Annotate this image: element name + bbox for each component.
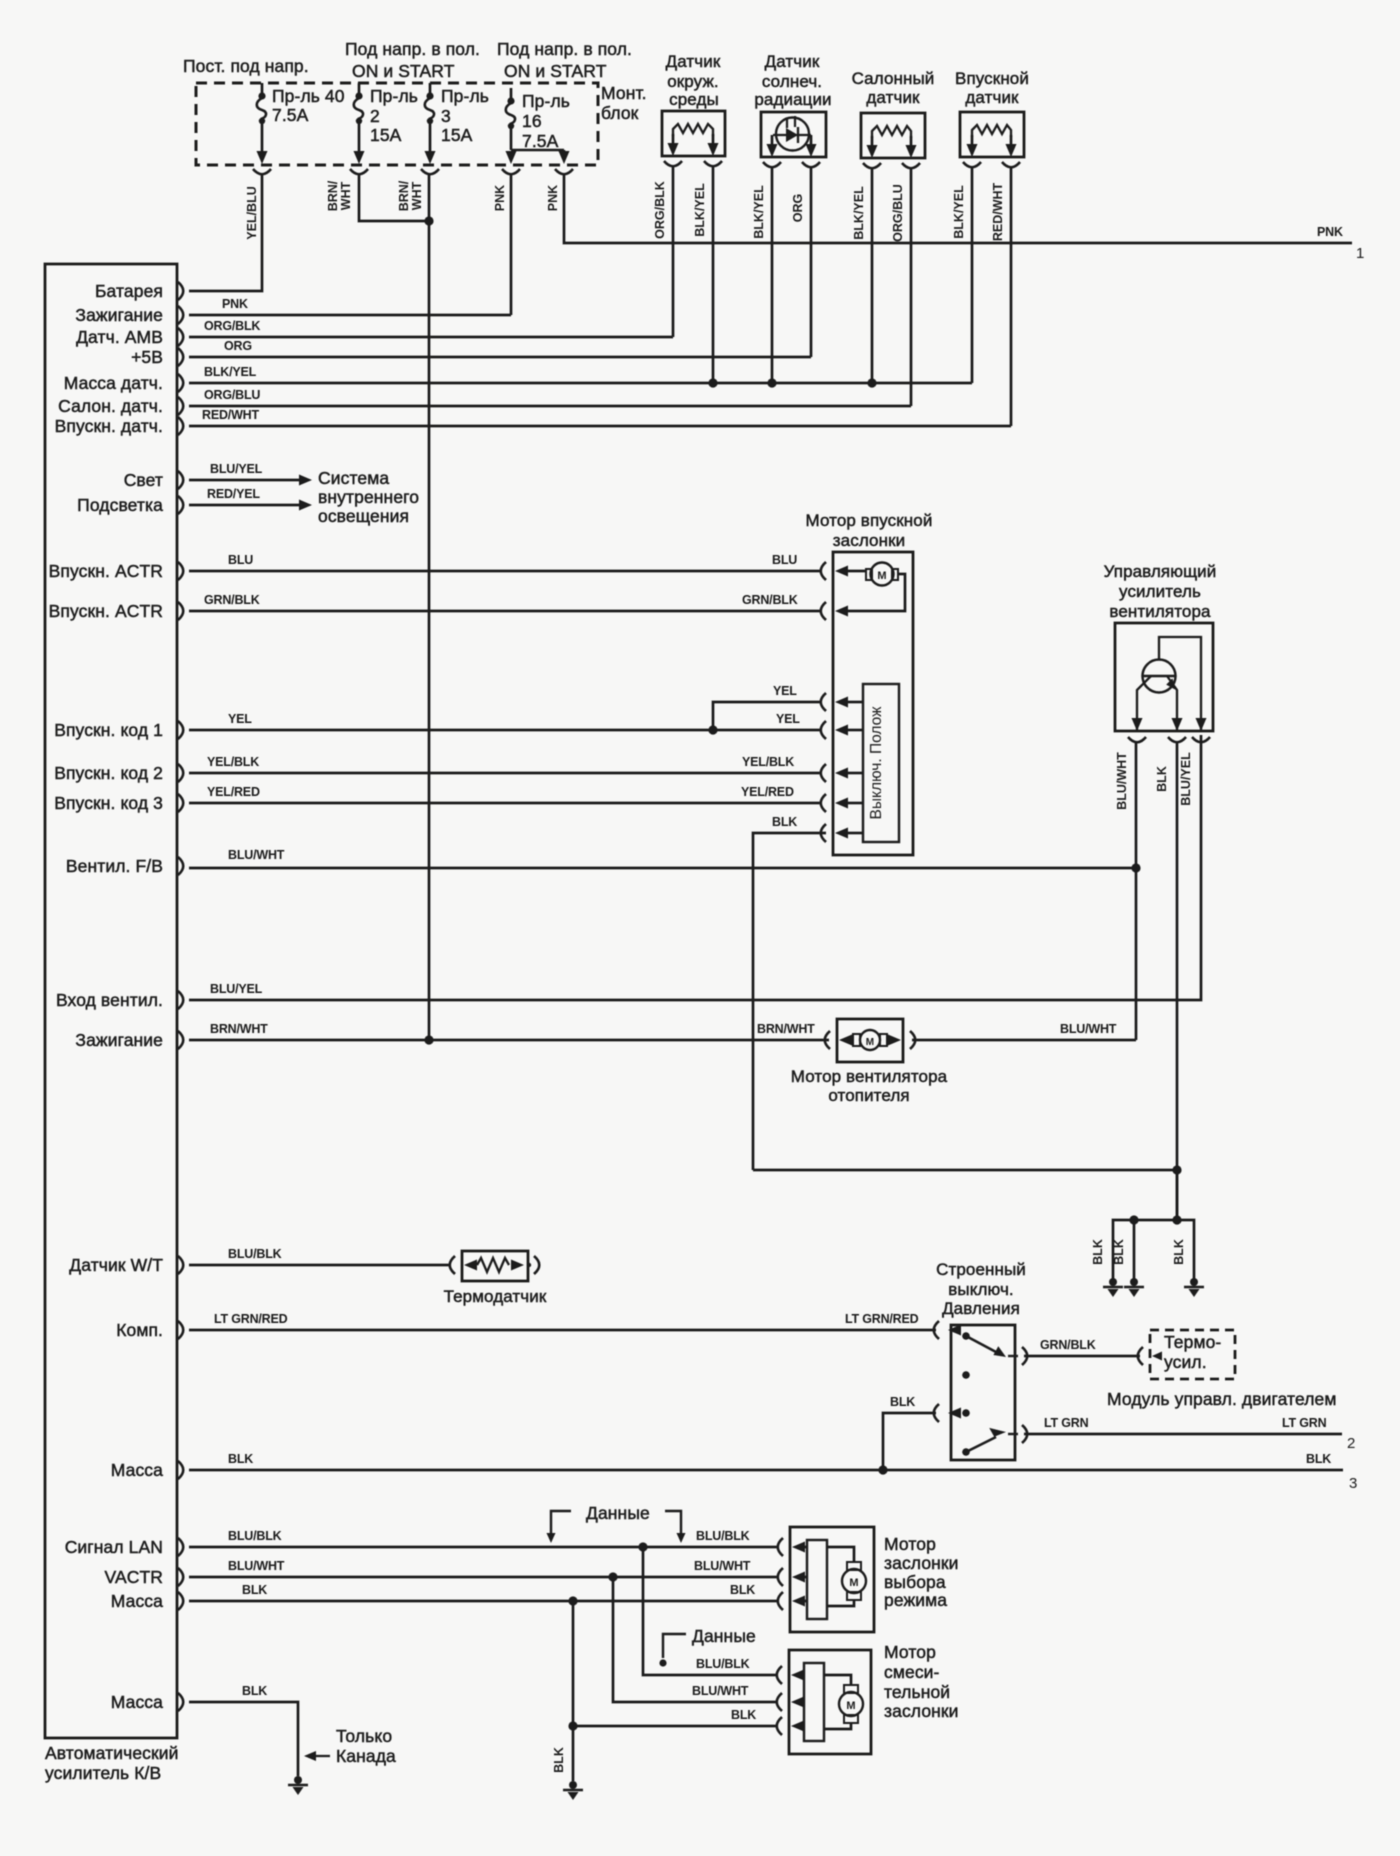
wire Датчик W/T BLU/BLK row [189,1264,451,1267]
switch contact c [962,1409,970,1417]
svg-text:YEL/RED: YEL/RED [207,785,260,799]
connector out of switch (GRN/BLK) [1008,1347,1027,1365]
svg-text:Строенный: Строенный [936,1260,1026,1279]
label Термодатчик [444,1287,547,1306]
svg-text:BLK/YEL: BLK/YEL [204,365,257,379]
wire label LT GRN (switch) [1044,1416,1089,1430]
fuse Пр-ль 3 15A [425,83,436,164]
svg-text:выключ.: выключ. [948,1280,1013,1299]
mode select motor box [790,1527,874,1632]
svg-text:Впускной: Впускной [955,69,1029,88]
label Модуль управл. двигателем [1107,1389,1337,1409]
label Пост. под напр. [183,56,309,76]
wire label BLU (right) [772,553,797,567]
svg-text:LT GRN/RED: LT GRN/RED [845,1312,919,1326]
svg-text:Масса: Масса [111,1460,163,1480]
ground (cluster 3) [1184,1278,1204,1297]
connector BLK into motor box [821,824,863,842]
svg-text:LT GRN/RED: LT GRN/RED [214,1312,288,1326]
net number 2 [1347,1435,1355,1452]
svg-text:GRN/BLK: GRN/BLK [742,593,798,607]
wire label GRN/BLK (right) [742,593,798,607]
wire Свет arrow [189,475,312,486]
pin Масса (y=1702) [111,1692,184,1712]
solar sensor pin arrows [767,135,817,157]
svg-text:Зажигание: Зажигание [75,305,163,325]
wire label YEL/BLK (right) [742,755,794,769]
wire label LT GRN/RED (right) [845,1312,919,1326]
label Данные (2) [692,1626,756,1646]
label Данные (1) [586,1503,650,1523]
label Мотор вентилятора отопителя [791,1067,948,1105]
svg-text:датчик: датчик [866,88,920,107]
svg-text:Подсветка: Подсветка [77,495,163,515]
svg-text:Термо-: Термо- [1164,1332,1221,1352]
wire label BLU/BLK (motor1) [696,1529,750,1543]
wire bracket left [1113,1220,1177,1280]
connector into pressure switch (BLK) [934,1404,961,1422]
svg-text:7.5A: 7.5A [272,105,309,125]
wire label BLU (left) [228,553,253,567]
svg-text:BLU/WHT: BLU/WHT [1060,1022,1117,1036]
wire label YEL/RED (left) [207,785,260,799]
wire label BLU/WHT (row15) [228,848,285,862]
svg-text:Управляющий: Управляющий [1104,562,1217,581]
wire fuse40 to Батарея pin [189,174,262,291]
motor M (mode select) [842,1562,866,1600]
svg-text:Масса датч.: Масса датч. [64,373,163,393]
junction bracket main [1172,1215,1181,1224]
wire intake sensor to RED/WHT row [1010,167,1013,426]
pin Свет (y=480) [124,470,184,490]
svg-text:датчик: датчик [965,88,1019,107]
connector YEL-a into motor box [821,693,863,711]
connector solar sensor left [763,162,781,167]
label Салонный датчик [852,69,935,107]
wire label RED/YEL [207,487,260,501]
pin Сигнал LAN (y=1547) [65,1537,184,1557]
junction BRN/WHT [424,1035,433,1044]
connector at fuse 2 output [350,169,368,174]
label Датчик окруж. среды [666,52,721,109]
svg-text:Впускн. код 3: Впускн. код 3 [54,793,163,813]
svg-text:Под напр. в пол.: Под напр. в пол. [497,39,632,59]
wire label GRN/BLK (left) [204,593,260,607]
wire label GRN/BLK (switch) [1040,1338,1096,1352]
svg-text:2: 2 [370,106,380,126]
junction BLK/YEL s3 [867,378,876,387]
svg-text:BLU: BLU [228,553,253,567]
pin Салон. датч. (y=406) [58,396,183,416]
svg-text:Монт.: Монт. [601,83,647,103]
intake sensor pin arrows [967,135,1017,157]
pressure switch box [951,1325,1015,1460]
wire mix motor internal top [824,1675,851,1685]
resistor in ambient sensor [673,124,713,136]
pin Зажигание (y=315) [75,305,183,325]
svg-text:Датчик W/T: Датчик W/T [69,1255,163,1275]
svg-text:BLK: BLK [1172,1239,1186,1265]
ambient sensor pin arrows [668,134,719,156]
svg-text:BLK: BLK [552,1747,566,1773]
svg-text:ORG/BLU: ORG/BLU [891,184,905,242]
svg-text:BLK: BLK [731,1708,756,1722]
svg-text:Впускн. датч.: Впускн. датч. [55,416,163,436]
svg-text:15A: 15A [370,125,402,145]
svg-text:Данные: Данные [586,1503,650,1523]
wire BLK to mix motor [573,1601,778,1726]
svg-text:тельной: тельной [884,1682,950,1702]
wire label YEL/BLU [245,186,259,239]
wire cabin sensor to BLK/YEL row [871,168,874,383]
svg-text:BRN/WHT: BRN/WHT [210,1022,268,1036]
svg-text:смеси-: смеси- [884,1662,940,1682]
wire label ORG [224,339,252,353]
svg-text:M: M [846,1700,855,1712]
svg-text:Салон. датч.: Салон. датч. [58,396,163,416]
label Под напр. в пол. ON и START (fuse 16) [497,39,632,81]
svg-text:WHT: WHT [339,181,353,210]
junction BLK/YEL s2 [767,378,776,387]
label Только Канада [336,1726,396,1766]
svg-text:YEL/BLU: YEL/BLU [245,186,259,239]
wire bracket right [1177,1220,1194,1280]
junction BLK/YEL s1 [708,378,717,387]
svg-text:BRN/: BRN/ [326,180,340,211]
wire ambient sensor to BLK/YEL row [712,166,715,383]
wire label PNK (fuse 16 a) [493,185,507,211]
svg-text:окруж.: окруж. [667,72,719,91]
wire YEL branch up [713,702,820,730]
svg-text:Пр-ль: Пр-ль [522,91,570,111]
wire label BRN/WHT (fuse 2) [326,180,353,211]
pin Впускн. ACTR (y=611) [49,601,184,621]
svg-text:BLU: BLU [772,553,797,567]
svg-text:ON и START: ON и START [352,61,455,81]
label Автоматический усилитель К/В [45,1743,179,1783]
wire LT GRN to engine module [1024,1433,1342,1436]
wire fuse16b to PNK line [564,174,1352,243]
sensor box Датчик окруж. среды [662,111,725,156]
connector GRN/BLK into motor box [821,602,848,620]
pin Вентил. F/B (y=866) [66,856,183,876]
svg-text:Сигнал LAN: Сигнал LAN [65,1537,163,1557]
wire BLK amp down [1176,742,1179,1220]
svg-text:заслонки: заслонки [833,531,905,550]
fan amp pin BLU/YEL [1192,718,1210,742]
svg-text:WHT: WHT [410,181,424,210]
svg-text:Автоматический: Автоматический [45,1743,179,1763]
wire label BLU/WHT (amp) [1115,752,1129,810]
wire label ORG/BLU [204,388,260,402]
svg-text:BLU/BLK: BLU/BLK [228,1529,282,1543]
svg-text:Под напр. в пол.: Под напр. в пол. [345,39,480,59]
connector BLU into motor box [821,562,866,580]
wire fuse2 down-right to fuse3 wire [359,174,425,221]
wire Впускн. код 2 YEL/BLK row [189,772,820,775]
wire BLK down to bracket [1176,1170,1179,1220]
svg-text:ORG/BLK: ORG/BLK [204,319,260,333]
label Мотор заслонки выбора режима [884,1534,959,1610]
svg-text:GRN/BLK: GRN/BLK [1040,1338,1096,1352]
svg-text:RED/WHT: RED/WHT [991,182,1005,241]
svg-text:BLU/BLK: BLU/BLK [696,1529,750,1543]
fan amp pin BLU/WHT [1128,718,1146,742]
wire label ORG/BLK [204,319,260,333]
wire heater motor to BLU/WHT [912,1039,1136,1042]
junction LAN branch [638,1542,647,1551]
connector YEL/BLK into motor box [821,764,863,782]
pin Впускн. код 2 (y=773) [54,763,183,783]
svg-text:RED/YEL: RED/YEL [207,487,260,501]
svg-text:среды: среды [669,90,719,109]
svg-text:BLU/BLK: BLU/BLK [228,1247,282,1261]
svg-text:BLU/WHT: BLU/WHT [694,1559,751,1573]
label Выключ. Полож [868,706,885,820]
svg-text:усил.: усил. [1164,1352,1207,1372]
wire BLK switch input [883,1413,936,1470]
wire label BRN/WHT (left) [210,1022,268,1036]
wire BLK row to grounds [753,1169,1177,1172]
connector ambient sensor right [704,161,722,166]
wire label YEL (right) [776,712,800,726]
wire Вход вентил. BLU/YEL row [189,735,1201,1000]
svg-text:ON и START: ON и START [504,61,607,81]
svg-text:BLK: BLK [1155,766,1169,792]
wire label PNK (right end) [1317,225,1343,239]
wire Масса BLK row (net 3) [189,1469,1343,1472]
wire label BLK/YEL (sensor3) [852,186,866,240]
svg-text:BLK: BLK [890,1395,915,1409]
svg-text:Датчик: Датчик [666,52,721,71]
wire +5В ORG row [189,356,811,359]
wire Салон. датч. ORG/BLU row [189,405,911,408]
svg-text:BLU/WHT: BLU/WHT [692,1684,749,1698]
wire BLU/WHT to mix motor [613,1577,778,1702]
svg-text:радиации: радиации [754,90,831,109]
connector intake sensor left [963,162,981,167]
svg-text:BLU/YEL: BLU/YEL [210,982,263,996]
intake door motor unit box [833,552,913,855]
wire Масса BLK row (motors) [189,1600,778,1603]
svg-text:ORG/BLK: ORG/BLK [653,181,667,239]
sensor box Впускной датчик [960,112,1024,157]
label Впускной датчик [955,69,1029,107]
svg-text:Термодатчик: Термодатчик [444,1287,547,1306]
svg-text:заслонки: заслонки [884,1553,959,1573]
thermo amplifier dashed box Термо-усил. [1150,1330,1235,1379]
svg-text:RED/WHT: RED/WHT [202,408,259,422]
wire label BLK (amp) [1155,766,1169,792]
connector BLK into mode motor [778,1592,807,1610]
pin Впускн. датч. (y=426) [55,416,184,436]
svg-text:BLK/YEL: BLK/YEL [752,185,766,239]
svg-text:Система: Система [318,468,389,488]
thermistor element [477,1258,524,1272]
resistor in intake sensor [972,125,1011,137]
wire label BLK (gnd1) [1091,1239,1105,1265]
label Мотор смесительной заслонки [884,1642,959,1721]
connector at fuse 16 output b [555,169,573,174]
svg-text:M: M [877,570,886,582]
wire label BLU/YEL (row16) [210,982,263,996]
wire label BLK (motor2) [731,1708,756,1722]
wire label BLK (gnd2) [1112,1239,1126,1265]
pin Вход вентил. (y=1000) [56,990,183,1010]
junction BLK row [878,1465,887,1474]
wire fuse16a to Зажигание pin [510,174,513,315]
svg-text:Масса: Масса [111,1591,163,1611]
connector BLU/WHT into mix motor [777,1693,804,1711]
transistor (fan amplifier) [1137,637,1201,731]
wire label LT GRN (right end) [1282,1416,1327,1430]
wire Впускн. датч. RED/WHT row [189,425,1011,428]
net number 1 [1356,245,1364,262]
svg-text:7.5A: 7.5A [522,131,559,151]
connector out of switch (LT GRN) [1008,1425,1027,1443]
svg-text:PNK: PNK [493,185,507,211]
bracket Данные-1 left [547,1511,572,1543]
pin Впускн. код 1 (y=730) [54,720,183,740]
svg-text:15A: 15A [441,125,473,145]
mix door motor box [789,1650,871,1754]
wire label BLK/YEL [204,365,257,379]
wire Впускн. ACTR BLU row [189,570,820,573]
label Под напр. в пол. ON и START (fuses 2,3) [345,39,480,81]
svg-text:YEL/RED: YEL/RED [741,785,794,799]
wire label BLU/BLK (motor2) [696,1657,750,1671]
svg-text:YEL/BLK: YEL/BLK [207,755,259,769]
svg-text:Зажигание: Зажигание [75,1030,163,1050]
svg-text:отопителя: отопителя [828,1086,909,1105]
photodiode in solar sensor [773,116,811,151]
svg-text:заслонки: заслонки [884,1701,959,1721]
svg-text:BLK: BLK [772,815,797,829]
svg-text:Мотор: Мотор [884,1534,936,1554]
svg-text:PNK: PNK [1317,225,1343,239]
sensor box Салонный датчик [861,113,925,158]
arrow Только Канада [304,1751,330,1761]
connector at fuse 3 output [421,169,439,174]
svg-text:ORG: ORG [224,339,252,353]
wire Вентил. F/B BLU/WHT row [189,867,1136,870]
junction BLK mix [568,1721,577,1730]
junction VACTR branch [608,1572,617,1581]
heater fan motor box [837,1019,903,1062]
label Управляющий усилитель вентилятора [1104,562,1217,621]
wire Сигнал LAN BLU/BLK row [189,1546,778,1549]
wire label RED/WHT [202,408,259,422]
svg-text:Пр-ль 40: Пр-ль 40 [272,86,345,106]
wire label BLU/WHT (motor2) [692,1684,749,1698]
wire label BLK (Canada) [242,1684,267,1698]
connector out of thermistor right [527,1256,539,1274]
svg-text:LT GRN: LT GRN [1044,1416,1089,1430]
wire Масса (Canada) BLK [189,1702,298,1776]
wire label BLU/BLK (W/T) [228,1247,282,1261]
wire Датч. AMB ORG/BLK row [189,336,673,339]
svg-text:BLK/YEL: BLK/YEL [852,186,866,240]
wire BLU/WHT amp down [1135,742,1138,1040]
motor M (heater fan) [853,1030,887,1050]
connector into heater motor left [825,1031,853,1049]
wire label ORG/BLU (sensor) [891,184,905,242]
svg-text:YEL: YEL [228,712,252,726]
label Пр-ль 3 15A [441,86,489,145]
wire label YEL (left) [228,712,252,726]
svg-text:Салонный: Салонный [852,69,935,88]
svg-text:Мотор впускной: Мотор впускной [806,511,933,530]
sensor box Датчик солнеч. радиации [761,112,826,157]
svg-text:ORG: ORG [791,194,805,222]
wire intake sensor to BLK/YEL row [971,167,974,383]
bracket Данные-2 [659,1634,686,1667]
mix motor connector bar [804,1663,824,1741]
connector intake sensor right [1002,162,1020,167]
svg-text:Впускн. код 2: Впускн. код 2 [54,763,163,783]
svg-text:солнеч.: солнеч. [762,72,822,91]
junction Масса branch [568,1596,577,1605]
motor M (mix door) [839,1685,863,1723]
label Датчик солнеч. радиации [754,52,831,109]
fan amplifier box [1115,623,1213,731]
fuse Пр-ль 40 7.5A [257,83,268,164]
wire bracket mid stub [1133,1220,1136,1280]
wire BLK down to ground [572,1726,575,1781]
svg-text:Вход вентил.: Вход вентил. [56,990,163,1010]
motor M (intake door) [866,563,898,586]
pin Датч. AMB (y=337) [76,327,183,347]
svg-text:M: M [849,1577,858,1589]
connector at fuse 40 output [253,169,271,174]
wire label BLK (right end) [1306,1452,1331,1466]
pin Масса (y=1601) [111,1591,184,1611]
cabin sensor pin arrows [867,136,917,158]
junction YEL branch [708,725,717,734]
wire label PNK (fuse 16 b) [546,185,560,211]
wire label BLK (row20) [228,1452,253,1466]
wire label BLU/WHT (heater) [1060,1022,1117,1036]
svg-text:BRN/: BRN/ [397,180,411,211]
svg-text:Вентил. F/B: Вентил. F/B [66,856,163,876]
pin Впускн. ACTR (y=571) [49,561,184,581]
svg-text:Давления: Давления [942,1299,1020,1318]
svg-text:BLU/YEL: BLU/YEL [1179,752,1193,806]
svg-text:усилитель: усилитель [1119,582,1201,601]
wire Впускн. код 1 YEL row [189,729,820,732]
svg-text:Канада: Канада [336,1746,396,1766]
connector BLK into mix motor [777,1717,804,1735]
svg-text:2: 2 [1347,1435,1355,1452]
installation block (Монт. блок) dashed outline [196,83,598,165]
control unit box Автоматический усилитель К/В [45,264,177,1738]
label Термо-усил. [1164,1332,1221,1372]
wire label ORG/BLK (sensor) [653,181,667,239]
switch blade lower [966,1428,1006,1452]
svg-text:GRN/BLK: GRN/BLK [204,593,260,607]
svg-text:Масса: Масса [111,1692,163,1712]
svg-text:BRN/WHT: BRN/WHT [757,1022,815,1036]
svg-text:внутреннего: внутреннего [318,487,419,507]
svg-text:16: 16 [522,111,542,131]
wire label RED/WHT (sensor) [991,182,1005,241]
svg-text:блок: блок [601,103,639,123]
svg-text:PNK: PNK [222,297,248,311]
svg-text:Датч. AMB: Датч. AMB [76,327,163,347]
svg-text:усилитель К/В: усилитель К/В [45,1763,161,1783]
svg-text:3: 3 [441,106,451,126]
label Монт. блок [601,83,647,123]
